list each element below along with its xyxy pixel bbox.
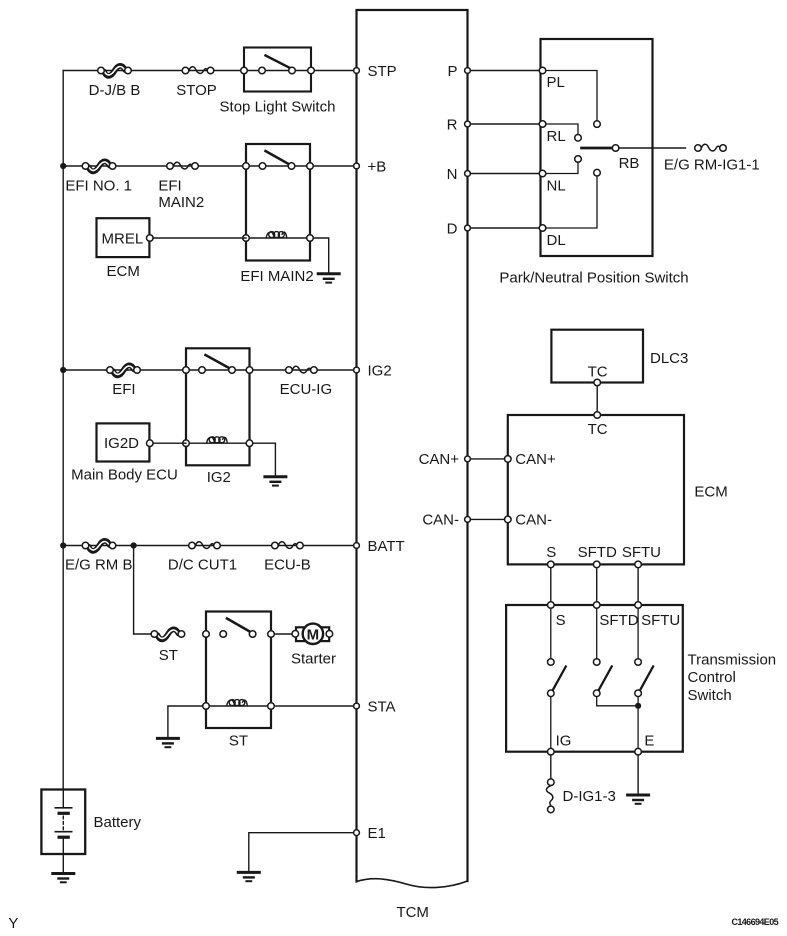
switch SW1 Stop Light Switch — [241, 48, 315, 92]
pin R — [447, 116, 471, 133]
label Transmission Control Switch — [688, 652, 777, 704]
svg-text:CAN+: CAN+ — [515, 451, 556, 468]
wire SFTD link — [596, 568, 598, 602]
svg-text:SFTD: SFTD — [599, 612, 638, 629]
svg-text:STP: STP — [368, 63, 397, 80]
svg-text:ECM: ECM — [694, 483, 727, 500]
label EFI MAIN2 (relay) — [240, 268, 313, 285]
wire ST branch — [134, 546, 152, 635]
svg-text:P: P — [447, 63, 457, 80]
label E/G RM B — [65, 557, 133, 574]
svg-text:Stop Light Switch: Stop Light Switch — [220, 99, 336, 116]
label TCM — [396, 904, 429, 921]
wire IG2 row — [63, 369, 354, 371]
svg-text:C146694E05: C146694E05 — [731, 917, 778, 927]
svg-text:Y: Y — [8, 915, 18, 932]
wire IG2D to relay coil — [153, 442, 186, 444]
svg-text:CAN+: CAN+ — [419, 451, 460, 468]
fuse E/G RM B — [82, 541, 116, 551]
pin D — [447, 220, 471, 237]
svg-text:NL: NL — [547, 177, 566, 194]
fuse ST — [151, 629, 185, 639]
svg-text:CAN-: CAN- — [422, 512, 459, 529]
wire STA row — [274, 705, 354, 707]
svg-text:SFTD: SFTD — [578, 544, 617, 561]
fuse E/G RM-IG1-1 — [695, 144, 727, 151]
label EFI — [112, 381, 135, 398]
wire STP row — [63, 70, 354, 72]
label ECM (box) — [694, 483, 727, 500]
label ECU-IG — [280, 381, 333, 398]
label ST (relay) — [229, 732, 248, 749]
fuse D-J/B B — [98, 66, 132, 76]
label Starter — [291, 650, 336, 667]
svg-text:TC: TC — [588, 364, 608, 381]
svg-text:EFI MAIN2: EFI MAIN2 — [240, 268, 313, 285]
svg-text:D: D — [447, 220, 458, 237]
svg-text:ECM: ECM — [107, 263, 140, 280]
label RB — [619, 155, 640, 172]
pin CAN- — [422, 512, 470, 529]
svg-text:RL: RL — [547, 128, 566, 145]
label EFI NO. 1 — [65, 178, 132, 195]
fuse EFI NO. 1 — [82, 161, 116, 171]
svg-text:D/C CUT1: D/C CUT1 — [168, 557, 237, 574]
wire IG2 coil to ground — [253, 443, 276, 476]
svg-text:S: S — [546, 544, 556, 561]
node junction BATT/ST branch — [131, 542, 137, 548]
svg-text:TC: TC — [588, 421, 608, 438]
pin E1 — [354, 825, 386, 842]
svg-text:IG2: IG2 — [207, 469, 231, 486]
svg-text:Control: Control — [688, 669, 736, 686]
label D-J/B B — [89, 82, 141, 99]
box ECM — [505, 412, 685, 568]
wire left supply bus — [62, 71, 64, 790]
switch Transmission Control Switch — [506, 602, 683, 755]
svg-text:+B: +B — [368, 158, 387, 175]
label IG2 (relay) — [207, 469, 231, 486]
node junction bus/IG2 — [60, 367, 66, 373]
svg-text:Transmission: Transmission — [688, 652, 777, 669]
wire N row — [470, 173, 540, 175]
fuse STOP — [182, 67, 214, 74]
wire MREL to relay coil — [153, 237, 246, 239]
svg-text:STA: STA — [368, 698, 396, 715]
label Stop Light Switch — [220, 99, 336, 116]
label D/C CUT1 — [168, 557, 237, 574]
wire P row — [470, 70, 540, 72]
label Y (page marker) — [8, 915, 18, 932]
svg-text:Battery: Battery — [94, 814, 142, 831]
wire E1 row — [249, 833, 354, 872]
pin IG2 — [354, 362, 392, 379]
svg-text:SFTU: SFTU — [622, 544, 661, 561]
pin STP — [354, 63, 397, 80]
ground (ST coil) — [157, 738, 178, 747]
label ST (fuse) — [159, 647, 178, 664]
svg-text:D-J/B B: D-J/B B — [89, 82, 141, 99]
svg-text:EFI: EFI — [112, 381, 135, 398]
wire TC (DLC3 to ECM) — [596, 386, 598, 412]
svg-text:Starter: Starter — [291, 650, 336, 667]
pin +B — [354, 158, 387, 175]
fuse D/C CUT1 — [189, 542, 221, 549]
label C146694E05 (figure code) — [731, 917, 778, 927]
label ECU-B — [264, 557, 311, 574]
svg-text:R: R — [447, 116, 458, 133]
label Main Body ECU — [71, 467, 178, 484]
svg-text:Main Body ECU: Main Body ECU — [71, 467, 178, 484]
box MREL (ECM output) — [97, 218, 154, 257]
wire relay coil to ground — [313, 238, 328, 273]
label Battery — [94, 814, 142, 831]
label Park/Neutral Position Switch — [499, 269, 688, 286]
wire +B row — [63, 165, 354, 167]
node junction bus/+B — [60, 163, 66, 169]
svg-text:BATT: BATT — [368, 538, 405, 555]
switch Park/Neutral Position Switch — [539, 39, 652, 256]
svg-text:S: S — [556, 612, 566, 629]
box IG2D (Main Body ECU output) — [97, 423, 154, 461]
svg-text:IG2D: IG2D — [104, 435, 139, 452]
svg-text:E/G RM-IG1-1: E/G RM-IG1-1 — [664, 156, 760, 173]
wire RB output — [619, 147, 686, 149]
svg-text:CAN-: CAN- — [515, 512, 552, 529]
svg-text:MAIN2: MAIN2 — [158, 194, 204, 211]
svg-text:EFI: EFI — [158, 178, 181, 195]
box TCM — [357, 10, 468, 888]
label EFI MAIN2 (fuse) — [158, 178, 204, 211]
svg-text:MREL: MREL — [102, 230, 144, 247]
wire ST relay to starter — [274, 633, 294, 635]
pin BATT — [354, 538, 405, 555]
pin STA — [354, 698, 396, 715]
fuse ECU-B — [272, 542, 304, 549]
label STOP — [176, 82, 217, 99]
svg-text:TCM: TCM — [396, 904, 429, 921]
motor M Starter — [292, 624, 333, 644]
svg-text:E1: E1 — [368, 825, 386, 842]
fuse EFI — [107, 365, 141, 375]
svg-text:IG2: IG2 — [368, 362, 392, 379]
svg-text:D-IG1-3: D-IG1-3 — [563, 788, 616, 805]
label D-IG1-3 — [563, 788, 616, 805]
wire ST coil to ground — [168, 706, 203, 738]
battery B1 — [41, 790, 85, 873]
svg-text:RB: RB — [619, 155, 640, 172]
svg-text:E/G RM B: E/G RM B — [65, 557, 133, 574]
svg-text:Park/Neutral Position Switch: Park/Neutral Position Switch — [499, 269, 688, 286]
fuse D-IG1-3 — [546, 779, 554, 813]
ground (IG2 coil) — [265, 477, 286, 486]
ground (battery) — [53, 874, 74, 883]
svg-text:ST: ST — [229, 732, 248, 749]
wire SFTU link — [637, 568, 639, 602]
relay ST — [203, 612, 275, 729]
wire CAN+ link — [470, 458, 504, 460]
svg-text:DLC3: DLC3 — [650, 350, 688, 367]
svg-text:IG: IG — [556, 732, 572, 749]
ground (E) — [628, 795, 649, 804]
svg-text:N: N — [447, 166, 458, 183]
fuse EFI MAIN2 — [167, 162, 199, 169]
pin P — [447, 63, 470, 80]
wire IG to fuse — [550, 755, 552, 779]
fuse ECU-IG — [286, 366, 318, 373]
svg-text:STOP: STOP — [176, 82, 217, 99]
wire S link — [550, 568, 552, 602]
svg-text:ECU-B: ECU-B — [264, 557, 311, 574]
pin CAN+ — [419, 451, 471, 468]
connector DLC3 — [551, 330, 643, 386]
wire D row — [470, 227, 540, 229]
pin N — [447, 166, 471, 183]
svg-text:Switch: Switch — [688, 687, 732, 704]
svg-text:ST: ST — [159, 647, 178, 664]
ground (E1) — [238, 872, 259, 881]
wire R row — [470, 123, 540, 125]
wire CAN- link — [470, 518, 504, 520]
svg-text:E: E — [644, 732, 654, 749]
svg-text:M: M — [307, 626, 320, 643]
label ECM (under MREL) — [107, 263, 140, 280]
wire BATT row — [63, 545, 354, 547]
relay EFI MAIN2 — [243, 144, 314, 261]
svg-text:EFI NO. 1: EFI NO. 1 — [65, 178, 132, 195]
label E/G RM-IG1-1 — [664, 156, 760, 173]
svg-text:SFTU: SFTU — [641, 612, 680, 629]
label DLC3 — [650, 350, 688, 367]
svg-text:DL: DL — [547, 232, 566, 249]
relay IG2 — [183, 348, 253, 465]
wire E to ground — [637, 755, 639, 794]
svg-text:ECU-IG: ECU-IG — [280, 381, 333, 398]
ground (EFI MAIN2 coil) — [318, 274, 339, 283]
node junction bus/BATT — [60, 542, 66, 548]
svg-text:PL: PL — [547, 74, 565, 91]
